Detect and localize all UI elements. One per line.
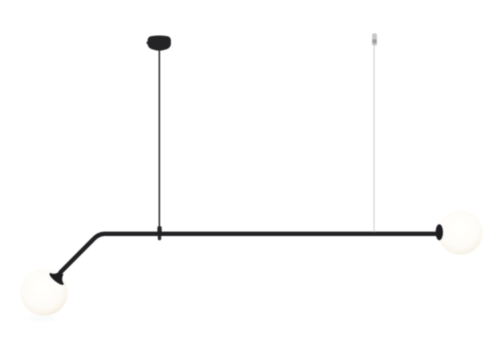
- right suspension wire: [374, 45, 375, 232]
- cord fitting on bar: [157, 226, 161, 233]
- floor reflection hint under left globe: [28, 316, 56, 320]
- left globe: [20, 268, 67, 315]
- right globe holder disc: [436, 224, 443, 240]
- right wire hanger fitting: [372, 33, 377, 45]
- horizontal bar with bend and angled rod: [61, 234, 438, 272]
- left globe holder disc: [48, 267, 69, 286]
- suspension cord: [159, 50, 161, 227]
- canopy side screw: [147, 42, 149, 45]
- cord fitting lower nub: [158, 233, 161, 240]
- ceiling canopy: [148, 36, 171, 51]
- right globe: [438, 210, 483, 255]
